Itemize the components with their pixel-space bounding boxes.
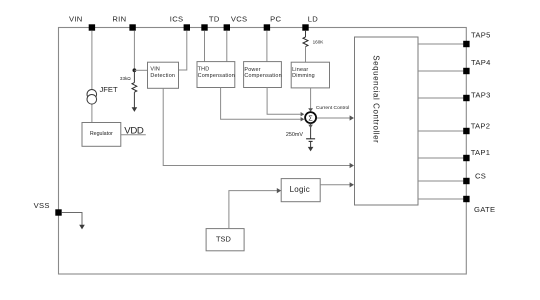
svg-text:Detection: Detection	[150, 73, 175, 79]
pin TAP5	[463, 31, 490, 48]
svg-text:PC: PC	[270, 15, 281, 24]
svg-text:ICS: ICS	[170, 15, 184, 24]
pin TD	[201, 15, 220, 31]
wire PC to Power Compensation	[266, 31, 268, 62]
svg-text:GATE: GATE	[474, 205, 495, 214]
pin TAP1	[463, 148, 490, 161]
svg-text:VCS: VCS	[231, 15, 248, 24]
svg-text:TAP2: TAP2	[471, 121, 491, 130]
ground arrow below 250mV	[308, 147, 314, 152]
svg-text:TAP4: TAP4	[471, 58, 491, 67]
svg-text:Compensation: Compensation	[244, 73, 281, 79]
wire VIN to JFET/Regulator	[91, 31, 93, 123]
svg-text:Linear: Linear	[292, 67, 308, 73]
svg-text:CS: CS	[475, 171, 486, 180]
wire RIN down to junction	[133, 31, 135, 71]
wire summer down to 250mV source	[310, 123, 312, 138]
Power Compensation block	[244, 62, 282, 88]
pin ICS	[170, 15, 190, 31]
svg-text:Regulator: Regulator	[90, 131, 113, 137]
svg-text:Sequencial Controller: Sequencial Controller	[371, 55, 380, 143]
svg-text:160K: 160K	[313, 40, 325, 45]
summer U3 sigma	[305, 112, 316, 123]
pin VIN	[69, 15, 95, 31]
wire controller to TAP5	[418, 43, 466, 45]
svg-text:TAP1: TAP1	[471, 148, 491, 157]
JFET Q1	[87, 85, 118, 104]
wire junction to VIN Detection	[134, 69, 147, 71]
wire controller to TAP1	[418, 157, 466, 159]
chip boundary	[59, 28, 467, 275]
pin TAP2	[463, 121, 490, 134]
pin LD	[302, 15, 318, 31]
svg-text:Compensation: Compensation	[198, 73, 235, 79]
wire 160K to Linear Dimming	[305, 47, 307, 63]
wire Power Compensation to summer	[267, 88, 301, 115]
THD Compensation block	[197, 62, 235, 88]
svg-text:Σ: Σ	[308, 115, 313, 122]
pin RIN	[112, 15, 135, 31]
ground arrow at VSS	[79, 225, 85, 230]
svg-text:250mV: 250mV	[286, 132, 303, 138]
svg-text:VDD: VDD	[124, 126, 144, 137]
svg-text:THD: THD	[198, 67, 210, 73]
wire Linear Dimming to summer	[310, 88, 312, 109]
wire controller to TAP3	[418, 97, 466, 99]
resistor 33k	[120, 70, 137, 92]
svg-text:VSS: VSS	[34, 201, 50, 210]
TSD block	[206, 229, 244, 251]
resistor 160K	[303, 31, 324, 47]
pin VCS	[224, 15, 248, 31]
wire resistor to arrow	[133, 92, 135, 107]
source 250mV	[286, 132, 315, 142]
pin CS	[463, 171, 486, 184]
node junction RIN/VIN-Detection	[133, 68, 137, 72]
wire Logic to Sequencial Controller	[320, 184, 353, 186]
wire TSD to Logic	[229, 191, 280, 229]
Regulator U2	[82, 123, 121, 147]
wire controller to CS	[418, 180, 466, 182]
svg-text:VIN: VIN	[150, 67, 160, 73]
svg-text:VIN: VIN	[69, 15, 83, 24]
pin GATE	[463, 196, 495, 214]
pin PC	[264, 15, 282, 31]
VIN Detection block	[148, 62, 179, 88]
svg-text:TAP3: TAP3	[471, 91, 491, 100]
svg-text:LD: LD	[308, 15, 319, 24]
svg-text:TAP5: TAP5	[471, 31, 491, 40]
wire ICS to VIN Detection right	[179, 31, 187, 70]
wire controller to GATE	[418, 198, 466, 200]
svg-text:TSD: TSD	[216, 234, 231, 243]
svg-text:Dimming: Dimming	[292, 73, 315, 79]
Linear Dimming block	[291, 62, 329, 88]
wire TD to THD Compensation	[204, 31, 206, 62]
wire VSS to ground arrow	[62, 213, 82, 226]
ground arrow below 33k	[132, 107, 138, 112]
Sequencial Controller block	[355, 37, 419, 205]
wire summer to Sequencial Controller	[317, 117, 353, 119]
svg-text:Current Control: Current Control	[316, 105, 349, 111]
pin TAP4	[463, 58, 490, 74]
wire VCS to THD Compensation	[226, 31, 228, 62]
svg-text:RIN: RIN	[112, 15, 126, 24]
pin TAP3	[463, 91, 490, 102]
svg-text:JFET: JFET	[100, 85, 119, 94]
wire VIN Detection to Sequencial Controller	[163, 88, 353, 165]
wire THD Compensation to summer	[221, 88, 301, 120]
wire controller to TAP4	[418, 70, 466, 72]
svg-text:33kΩ: 33kΩ	[120, 76, 131, 81]
wire source to ground arrow	[310, 141, 312, 147]
net VDD	[121, 126, 146, 137]
wire controller to TAP2	[418, 130, 466, 132]
pin VSS	[34, 201, 62, 216]
svg-text:Logic: Logic	[290, 185, 310, 194]
Logic block	[281, 179, 320, 202]
svg-text:TD: TD	[209, 15, 220, 24]
